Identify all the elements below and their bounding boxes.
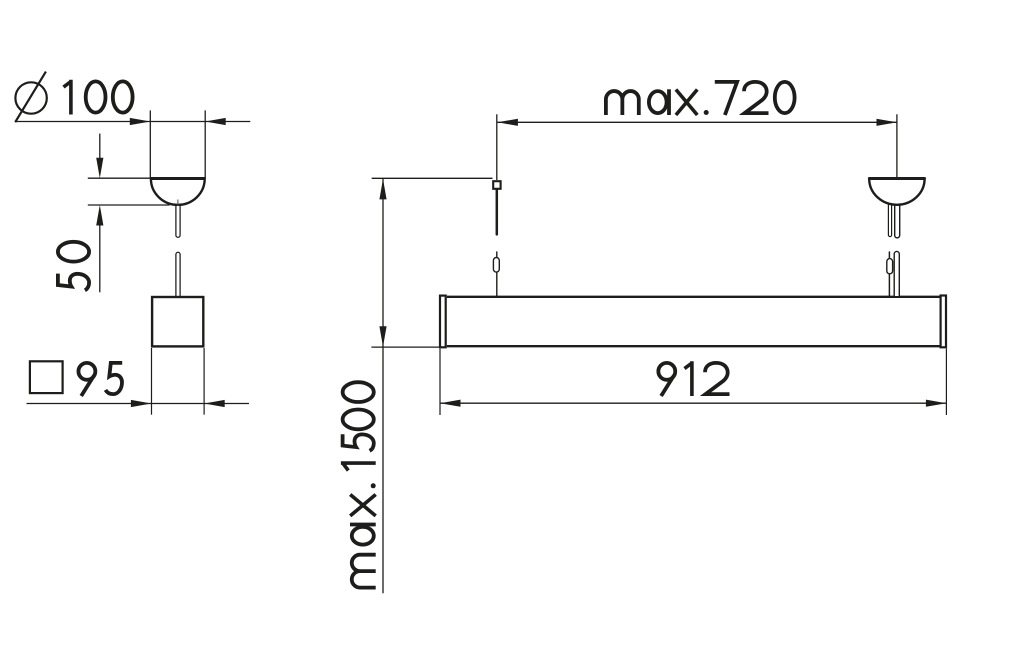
left suspension upper line [496,114,498,180]
arrow left-pointing at right ext [205,118,226,125]
right end cap [941,296,946,348]
wire stub above canopy curve [177,200,179,207]
arrow left-pointing 912 [440,400,461,407]
dimension line 95 [27,403,250,405]
wire lower segment [176,252,180,296]
arrow right-pointing at left ext [130,118,151,125]
arrow up at ceiling [379,179,386,200]
left suspension wire thick [496,190,499,234]
diameter symbol [15,72,47,123]
label 50 rotated [58,242,89,290]
canopy wire upper segment [176,202,180,237]
square symbol [30,361,63,393]
extension line left of D100 [149,110,151,178]
square profile cross-section [152,297,203,346]
right cable upper segment [888,200,891,237]
label max.1500 rotated [341,382,376,587]
dim 50 lower line with up arrow [96,205,103,292]
left suspension wire below break [496,252,498,259]
extension line right below square [203,348,205,415]
label 100 [64,80,133,115]
label 95 [78,363,122,396]
extension line right of D100 [204,110,206,178]
arrow right-pointing 912 [926,400,947,407]
canopy dome left [150,178,205,205]
arrow left-pointing at left end [497,119,518,126]
canopy dome right [869,178,924,204]
dimension line D100 [15,121,250,123]
dim 50 upper line with down arrow [96,134,103,179]
right cable below break [888,252,890,296]
extension line canopy bottom [88,204,170,206]
max1500 dimension line [382,179,384,593]
right cord below break [894,251,899,296]
right ext line max720 [896,114,898,177]
arrow left-pointing at right ext 95 [204,400,225,407]
arrow down at body bottom [379,326,386,347]
right cable adjuster capsule [887,259,893,274]
dimension line max720 [497,121,897,123]
extension line ceiling level [372,177,493,179]
body top line [447,296,940,298]
extension line 912 left [439,349,441,415]
left cable adjuster capsule [493,258,499,273]
arrow right-pointing at left ext 95 [131,400,152,407]
label max.720 [606,82,795,115]
extension line body bottom left [371,346,439,348]
body bottom line [447,345,940,347]
right cord upper segment [895,200,900,238]
ceiling fixture square [493,181,500,189]
extension line left below square [151,348,153,415]
label 912 [658,361,729,396]
left end cap [440,296,446,348]
dimension line 912 [440,402,946,404]
arrow right-pointing at right end [877,119,898,126]
extension line 912 right [945,349,947,415]
extension line canopy top [88,177,151,179]
left wire to body [496,272,498,296]
